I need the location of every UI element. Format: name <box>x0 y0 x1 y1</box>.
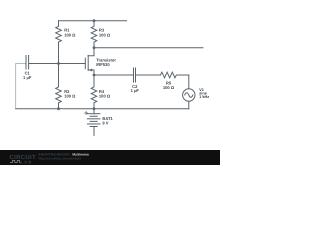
svg-text:http://circuitlab.com/c6wm42: http://circuitlab.com/c6wm42 <box>39 157 82 161</box>
svg-text:9 V: 9 V <box>102 121 108 126</box>
svg-text:LAB: LAB <box>21 160 33 165</box>
svg-text:100 Ω: 100 Ω <box>99 94 111 99</box>
svg-text:100 Ω: 100 Ω <box>64 32 76 37</box>
svg-text:1 kHz: 1 kHz <box>199 94 209 99</box>
svg-text:IHEARTNSHRADER : MySinema: IHEARTNSHRADER : MySinema <box>39 152 89 156</box>
svg-text:1 µF: 1 µF <box>131 88 140 93</box>
svg-text:IRF530: IRF530 <box>96 62 110 67</box>
svg-text:100 Ω: 100 Ω <box>99 32 111 37</box>
svg-text:1 µF: 1 µF <box>23 75 32 80</box>
svg-text:100 Ω: 100 Ω <box>163 85 175 90</box>
svg-text:100 Ω: 100 Ω <box>64 94 76 99</box>
